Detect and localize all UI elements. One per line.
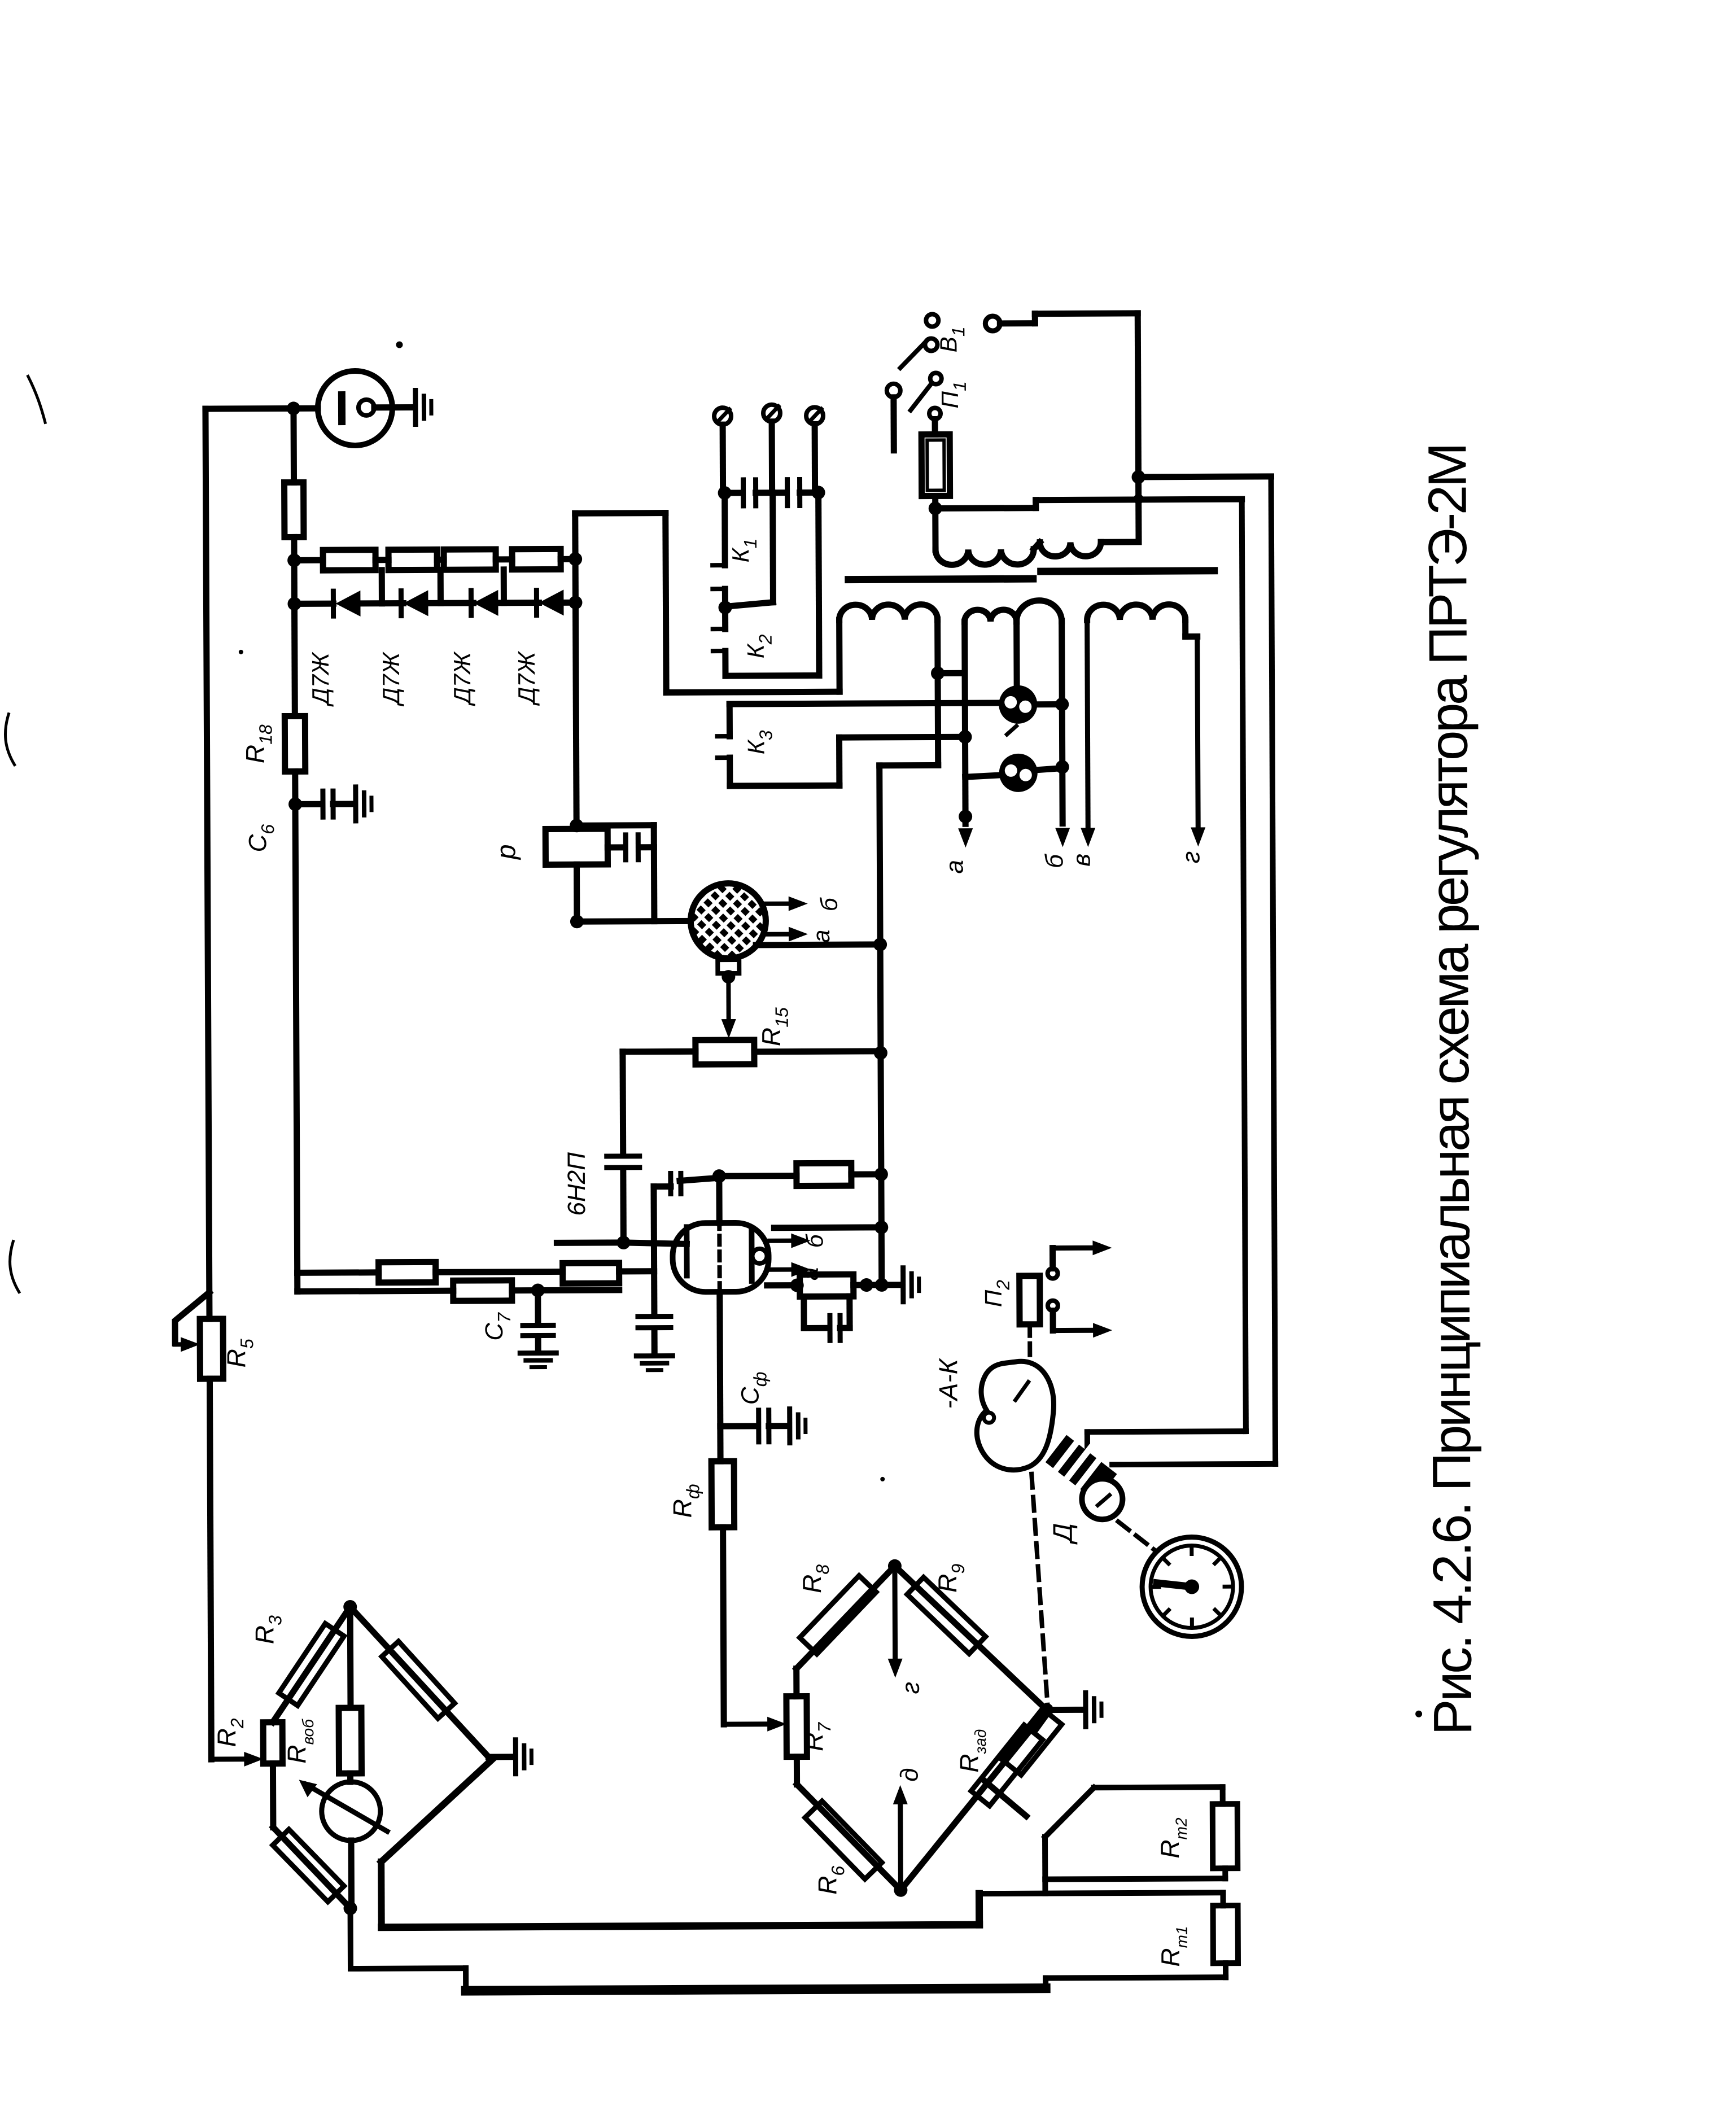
svg-text:Д: Д (1048, 1523, 1078, 1545)
svg-text:б: б (801, 1234, 828, 1248)
svg-text:6Н2П: 6Н2П (563, 1152, 591, 1216)
svg-text:б: б (1040, 853, 1068, 868)
svg-text:а: а (808, 930, 834, 943)
svg-text:б: б (816, 897, 842, 911)
svg-text:а: а (797, 1267, 823, 1281)
svg-text:г: г (897, 1682, 925, 1694)
svg-text:г: г (1177, 851, 1205, 864)
svg-text:Рис. 4.2.6. Принципиальная схе: Рис. 4.2.6. Принципиальная схема регулят… (1417, 445, 1483, 1736)
svg-text:Д7Ж: Д7Ж (307, 652, 334, 707)
svg-text:д: д (895, 1768, 923, 1782)
svg-text:-А-К: -А-К (933, 1357, 963, 1409)
svg-text:в: в (1068, 854, 1095, 867)
svg-text:а: а (941, 860, 968, 874)
svg-text:Д7Ж: Д7Ж (513, 650, 540, 706)
svg-text:Д7Ж: Д7Ж (449, 651, 475, 706)
svg-text:р: р (491, 844, 521, 860)
svg-text:Д7Ж: Д7Ж (378, 651, 404, 706)
